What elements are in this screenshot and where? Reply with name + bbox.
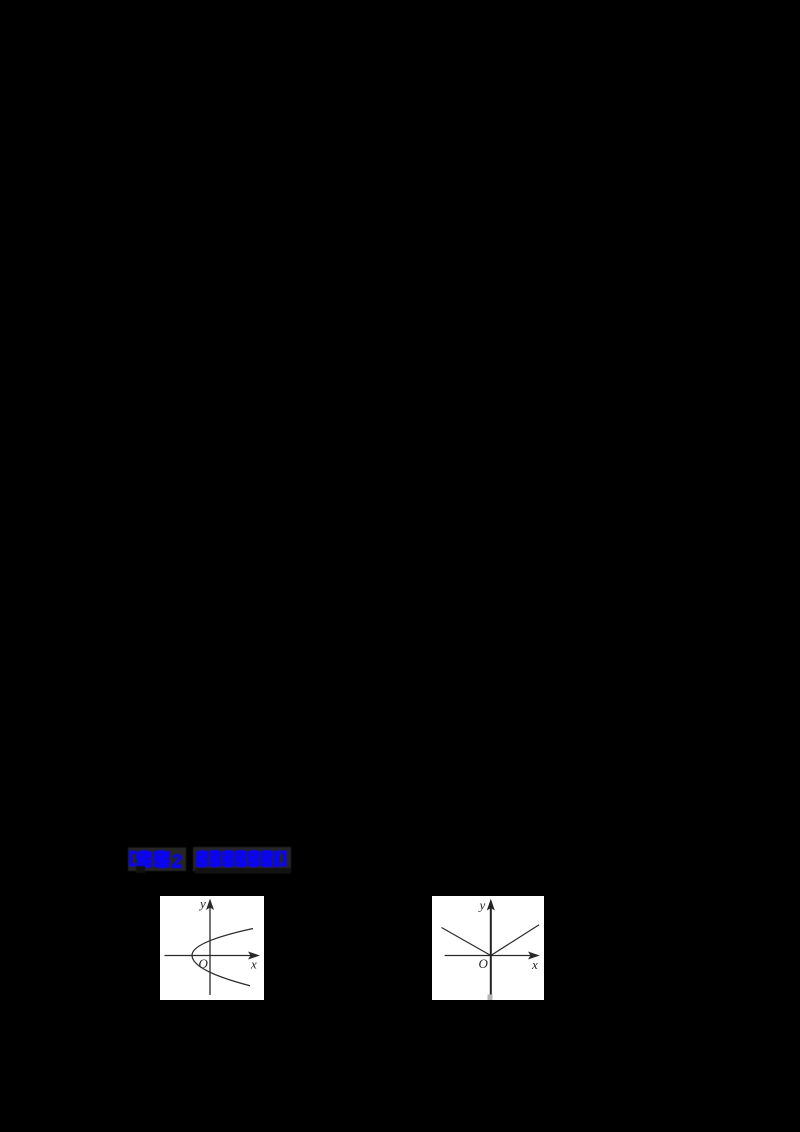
y-axis arrowhead — [487, 899, 495, 911]
x-axis line — [165, 955, 253, 957]
heading group1 grey backdrop — [128, 848, 186, 872]
x-axis line — [445, 955, 532, 957]
svg-text:x: x — [250, 957, 257, 972]
heading open bracket — [129, 851, 136, 867]
heading dark ink blob bottom-left — [136, 866, 145, 873]
svg-text:y: y — [478, 898, 486, 913]
y-axis line — [490, 904, 492, 995]
parabola — [192, 929, 253, 986]
svg-text:x: x — [531, 957, 538, 972]
y-axis arrowhead — [206, 899, 214, 911]
heading dark smudge below — [195, 868, 291, 874]
grey nub bottom of y-axis — [488, 995, 493, 1001]
heading group2 chars — [196, 850, 280, 868]
heading digit 2 — [172, 854, 182, 868]
svg-text:O: O — [199, 956, 209, 971]
heading char dian — [153, 850, 170, 868]
heading char kao — [136, 850, 153, 868]
heading glyph texture marks — [138, 855, 272, 864]
graph panel 2: V rays — [432, 896, 544, 1000]
heading close bracket — [281, 851, 287, 867]
x-axis arrowhead — [248, 952, 260, 960]
heading group2 grey backdrop — [193, 847, 291, 871]
heading: blue bold CJK title band — [126, 845, 296, 877]
y-axis line — [209, 904, 211, 995]
left ray — [442, 928, 491, 956]
svg-text:y: y — [198, 896, 206, 911]
svg-text:O: O — [479, 956, 489, 971]
right ray — [491, 925, 539, 956]
graph panel 1: sideways parabola — [160, 896, 264, 1000]
x-axis arrowhead — [528, 952, 540, 960]
